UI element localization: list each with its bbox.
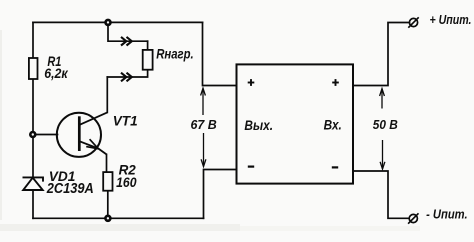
wire top rail	[33, 21, 203, 23]
label plus right of block	[332, 79, 339, 86]
wire bottom rail	[33, 217, 204, 219]
svg-text:6,2к: 6,2к	[44, 65, 68, 81]
wire block right - to minus terminal	[353, 171, 409, 218]
resistor R1	[29, 58, 38, 79]
wire block left - to bottom rail	[204, 170, 237, 219]
svg-text:2С139А: 2С139А	[46, 181, 94, 197]
svg-text:160: 160	[116, 174, 137, 190]
node A base junction	[30, 132, 35, 137]
wire branch from top node down-right to Rnagr top	[108, 22, 148, 41]
wire emitter to R2	[106, 154, 108, 172]
wire base from node A to VT1	[33, 134, 58, 136]
svg-text:67 В: 67 В	[191, 117, 217, 132]
dimension arrow 67V up	[201, 88, 206, 115]
svg-text:- Uпит.: - Uпит.	[426, 207, 468, 222]
svg-text:Вых.: Вых.	[244, 117, 273, 133]
transistor VT1	[57, 112, 108, 157]
terminal -Upit circle	[408, 213, 418, 223]
dimension arrow 67V down	[201, 133, 206, 167]
label minus left of block	[248, 166, 254, 168]
wire R2 bottom lead	[107, 191, 109, 219]
wire Rnagr bottom lead to collector branch	[107, 70, 147, 77]
label plus left of block	[248, 79, 255, 86]
node top junction	[106, 20, 111, 25]
node bottom junction	[105, 216, 110, 221]
wire top-right corner down to block left +	[203, 22, 237, 85]
block stabilizer rectangle	[237, 64, 354, 183]
svg-text:VT1: VT1	[113, 113, 138, 129]
wire block right + to plus terminal	[353, 23, 409, 86]
svg-text:Вх.: Вх.	[324, 116, 342, 132]
dimension arrow 50V down	[380, 140, 385, 169]
resistor R2	[103, 172, 112, 191]
dimension arrow 50V up	[380, 89, 385, 109]
resistor Rnagr	[143, 50, 153, 70]
label minus right of block	[332, 166, 338, 168]
wire Rnagr top lead	[147, 41, 149, 50]
connector chevrons bottom branch	[121, 73, 132, 82]
svg-text:50 В: 50 В	[373, 117, 398, 132]
connector chevrons top branch	[121, 37, 132, 46]
wire left rail	[32, 22, 34, 218]
emitter arrow of VT1	[86, 139, 98, 149]
svg-text:+ Uпит.: + Uпит.	[430, 12, 472, 27]
zener diode VD1	[23, 177, 44, 190]
wire collector vertical	[106, 77, 108, 112]
terminal +Upit circle	[408, 17, 418, 27]
svg-text:Rнагр.: Rнагр.	[156, 45, 194, 61]
